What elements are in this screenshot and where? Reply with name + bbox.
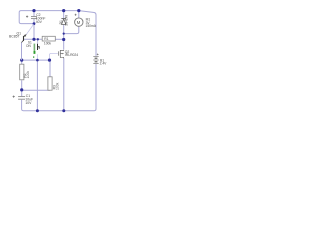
wire R1 to drain node	[55, 38, 63, 40]
svg-text:150mA: 150mA	[86, 24, 97, 28]
svg-text:1N4148: 1N4148	[65, 15, 69, 26]
svg-text:ON: ON	[26, 44, 31, 48]
node drain / R1	[62, 38, 65, 41]
svg-text:M: M	[77, 20, 81, 25]
node D1 / M1 join	[63, 33, 65, 35]
svg-text:D1: D1	[59, 20, 63, 24]
wire R3 bottom horizontal	[22, 89, 50, 91]
wire S1 top link	[37, 39, 39, 43]
svg-text:IRLR024: IRLR024	[65, 53, 78, 57]
wire lower bus y60	[22, 59, 49, 61]
switch S1	[26, 40, 39, 57]
svg-text:100k: 100k	[56, 82, 60, 90]
wire R3 top lead	[49, 60, 51, 77]
wire R2 bottom lead	[21, 80, 23, 90]
node bottom rail / S1 drop	[36, 109, 39, 112]
transistor Q1	[9, 24, 34, 60]
motor M1	[75, 14, 97, 28]
svg-text:R1: R1	[44, 37, 48, 41]
node bus2 / R3 gate	[48, 59, 51, 62]
wire R2 top lead	[21, 60, 23, 64]
wire gate connection	[50, 53, 58, 60]
wire S1 ground drop	[36, 60, 38, 111]
wire C1 top lead	[21, 90, 23, 96]
wire D1 branch bottom	[63, 25, 65, 34]
node top rail / M1	[77, 9, 80, 12]
transistor Q2	[59, 50, 79, 59]
node bus2 / S1 drop	[36, 59, 39, 62]
svg-text:BC857: BC857	[9, 35, 19, 39]
svg-text:40V: 40V	[36, 20, 43, 24]
node R2 / C1 / R3 wire	[20, 88, 23, 91]
node bus / C2 branch	[32, 38, 35, 41]
resistor R2	[20, 64, 30, 80]
wire D1 branch top	[63, 11, 65, 19]
capacitor C1	[13, 94, 34, 105]
node bus2 / R2	[20, 59, 23, 62]
wire motor top lead	[78, 11, 80, 18]
svg-text:2.4V: 2.4V	[100, 61, 108, 65]
svg-text:100k: 100k	[26, 71, 30, 79]
node top rail / D1	[62, 9, 65, 12]
svg-text:10V: 10V	[25, 101, 32, 105]
capacitor C2	[26, 13, 45, 24]
node top rail / C2	[32, 9, 35, 12]
svg-text:100k: 100k	[44, 41, 52, 45]
node bus / S1 top	[37, 38, 39, 40]
resistor R1	[42, 36, 55, 45]
wire source drop	[63, 58, 65, 110]
wire motor bottom lead and join horizontal	[64, 26, 79, 34]
resistor R3	[48, 77, 60, 90]
diode D1	[59, 15, 69, 26]
wire top rail with left stub and emitter feed	[19, 11, 96, 56]
wire C2 branch upper	[33, 11, 35, 17]
wire S1 bottom link	[37, 54, 39, 60]
wire drain riser	[63, 34, 65, 50]
node bottom rail / source	[62, 109, 65, 112]
node emitter / C2 branch	[33, 22, 36, 25]
battery B1	[93, 54, 107, 66]
wire right rail lower and bottom rail	[22, 64, 96, 111]
wire gate bus y39	[24, 38, 44, 40]
wire C2 branch lower	[33, 19, 35, 39]
